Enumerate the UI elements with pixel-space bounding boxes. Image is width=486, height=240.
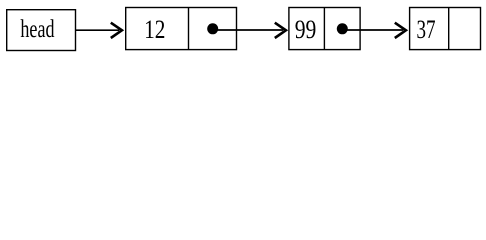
arrow 1 head <box>111 23 122 38</box>
node 1 box <box>126 8 237 50</box>
arrow 3 head <box>395 23 406 38</box>
node 2 pointer dot <box>337 23 348 34</box>
node 3 box <box>410 8 481 50</box>
svg-text:37: 37 <box>417 14 436 44</box>
arrow 2 shaft <box>213 29 283 31</box>
node 3 divider <box>448 8 450 50</box>
svg-text:head: head <box>20 15 54 43</box>
svg-text:12: 12 <box>144 16 165 45</box>
head box <box>7 10 76 51</box>
arrow 2 head <box>275 23 286 38</box>
arrow 1 shaft <box>76 29 119 31</box>
node 2 divider <box>323 8 325 50</box>
node 2 box <box>289 8 360 50</box>
svg-text:99: 99 <box>295 15 317 45</box>
arrow 3 shaft <box>342 29 403 31</box>
node 1 pointer dot <box>207 23 218 34</box>
node 1 divider <box>188 8 190 50</box>
